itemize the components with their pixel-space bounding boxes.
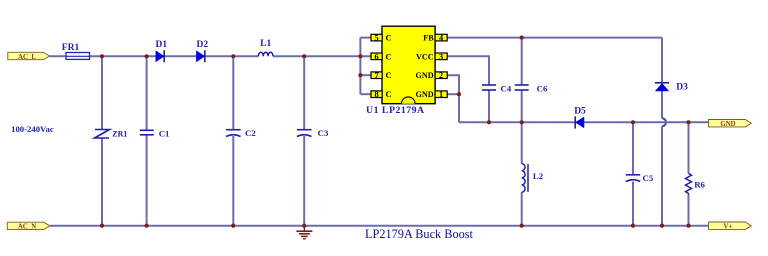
pin name C pin8 [386,89,392,99]
svg-text:FR1: FR1 [62,43,80,53]
svg-text:FB: FB [423,34,434,43]
label D2 [196,40,208,50]
junction GND rail R6 [686,120,690,124]
wire GND rail right of D5 [584,121,709,123]
svg-text:C2: C2 [245,128,256,138]
junction bottom rail C2 [231,224,235,228]
diode D5 [575,116,584,128]
svg-text:D1: D1 [155,40,167,50]
pin 3 box [435,52,447,61]
wire pin bus vertical [359,38,361,95]
label C5 [643,173,654,183]
pin 1 box [435,90,447,99]
wire pin2 to GND rail [447,75,459,122]
label L2 [533,171,544,181]
svg-text:L2: L2 [533,171,544,181]
label ZR1 [112,130,127,139]
svg-text:100-240Vac: 100-240Vac [11,124,54,134]
svg-text:C1: C1 [159,128,170,138]
pin 6 box [371,52,382,61]
junction GND rail C5 [631,120,635,124]
svg-text:C: C [386,51,392,61]
wire R6 lower [688,195,690,226]
pin name VCC [416,52,434,61]
svg-text:5: 5 [375,34,379,43]
pin name GND pin2 [415,71,433,80]
label 100-240Vac [11,124,54,134]
svg-text:LP2179A Buck Boost: LP2179A Buck Boost [365,227,474,241]
wire bottom rail [50,225,709,227]
pin 5 box [371,34,382,43]
junction GND rail C6 L2 [520,120,524,124]
svg-text:GND: GND [720,121,735,128]
svg-text:3: 3 [439,52,443,61]
label L1 [260,39,271,49]
wire vertical C2 branch lower [232,136,234,226]
label D3 [676,83,688,93]
svg-text:1: 1 [439,90,443,99]
label R6 [694,180,705,190]
title LP2179A Buck Boost [365,227,474,241]
junction bus pin7 [358,73,362,77]
label C6 [537,83,548,93]
diode D3 [655,83,669,91]
svg-text:7: 7 [375,71,379,80]
svg-text:C4: C4 [501,83,512,93]
label C1 [159,128,170,138]
svg-text:GND: GND [415,71,433,80]
svg-text:L1: L1 [260,39,271,49]
svg-text:VCC: VCC [416,52,434,61]
svg-text:U1 LP2179A: U1 LP2179A [366,105,425,116]
svg-text:C3: C3 [318,128,329,138]
capacitor C6 [515,85,529,90]
junction bottom rail C3 ground [302,224,306,228]
pin 2 box [435,71,447,80]
pin name FB [423,34,434,43]
junction top rail C2 [231,54,235,58]
pin 8 box [371,90,382,99]
wire vertical C3 branch upper [303,56,305,129]
port V+ [709,222,752,231]
wire pin8 stub [360,93,371,95]
svg-text:AC_L: AC_L [18,54,36,61]
wire top rail left segment [50,55,259,57]
wire R6 upper [688,122,690,173]
svg-text:D2: D2 [196,40,208,50]
port GND [709,120,752,129]
label C2 [245,128,256,138]
junction bottom rail D3 [660,224,664,228]
fuse FR1 [66,53,90,60]
wire pin7 stub [360,74,371,76]
junction GND rail C4 [487,120,491,124]
port AC_L [8,52,50,61]
junction bottom rail ZR1 [100,224,104,228]
svg-text:C: C [386,33,392,43]
wire L2 lower [521,192,523,226]
junction bottom rail L2 [520,224,524,228]
varistor ZR1 [95,130,110,139]
wire vertical C1 branch lower [146,135,148,226]
svg-text:ZR1: ZR1 [112,130,127,139]
svg-text:C: C [386,89,392,99]
junction top rail C1 [145,54,149,58]
wire FB net horizontal [447,37,662,39]
svg-text:D5: D5 [574,106,586,116]
wire vertical ZR1 branch upper [101,56,103,129]
junction bottom rail C5 [631,224,635,228]
svg-text:8: 8 [375,90,379,99]
pin name C pin5 [386,33,392,43]
wire pin5 stub [360,37,371,39]
svg-text:C6: C6 [537,83,548,93]
junction top rail ZR1 [100,54,104,58]
label C3 [318,128,329,138]
diode D2 [196,50,204,62]
wire C4 lower [488,90,490,122]
wire hop over GND rail [662,118,666,126]
capacitor C5 [626,175,640,182]
junction top rail bus [358,54,362,58]
wire GND rail left of D5 [459,121,575,123]
op chip U1 body [382,26,435,104]
label U1 LP2179A [366,105,425,116]
svg-text:C: C [386,70,392,80]
wire D3 vertical upper [661,38,663,83]
svg-text:AC_N: AC_N [18,224,36,231]
wire vertical C2 branch upper [232,56,234,129]
capacitor C1 [140,130,154,135]
resistor R6 [686,173,692,195]
svg-text:V+: V+ [724,224,733,231]
pin 4 box [435,34,447,43]
inductor L2 [522,164,528,193]
port AC_N [7,222,50,231]
svg-text:R6: R6 [694,180,705,190]
wire vertical C3 branch lower [303,136,305,226]
label FR1 [62,43,80,53]
junction pin1 [457,92,461,96]
junction top rail C3 [302,54,306,58]
junction bottom rail R6 [686,224,690,228]
wire D3 vertical middle [661,91,663,118]
wire C5 upper [632,122,634,175]
label D1 [155,40,167,50]
wire C6 vertical upper [521,38,523,85]
wire L2 upper [521,122,523,163]
svg-text:6: 6 [375,52,379,61]
svg-text:D3: D3 [676,83,688,93]
label D5 [574,106,586,116]
capacitor C3 [297,130,312,137]
diode D1 [156,50,164,62]
capacitor C2 [226,130,241,137]
wire top rail right segment [273,55,371,57]
wire C6 vertical lower [521,90,523,122]
pin name C pin7 [386,70,392,80]
capacitor C4 [482,85,496,90]
pin 7 box [371,71,382,80]
pin name C pin6 [386,51,392,61]
wire D3 vertical lower [661,126,663,225]
wire vertical C1 branch upper [146,56,148,130]
wire pin1 stub [447,93,459,95]
wire VCC net [447,56,489,85]
inductor L1 [258,52,273,56]
wire vertical ZR1 branch lower [101,138,103,226]
svg-text:2: 2 [439,71,443,80]
svg-text:C5: C5 [643,173,654,183]
svg-text:GND: GND [415,90,433,99]
ground symbol [296,226,312,239]
junction bottom rail C1 [145,224,149,228]
pin name GND pin1 [415,90,433,99]
label C4 [501,83,512,93]
wire C5 lower [632,182,634,226]
junction FB C6 [520,36,524,40]
